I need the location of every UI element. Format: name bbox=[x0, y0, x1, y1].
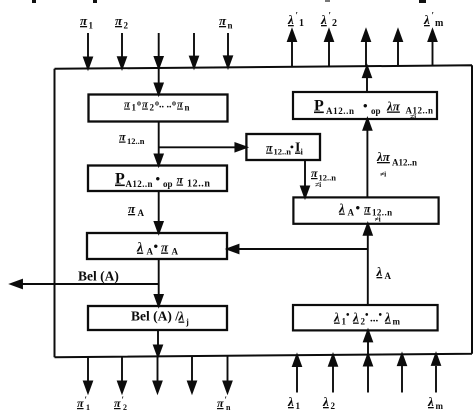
svg-text:1: 1 bbox=[86, 403, 90, 411]
svg-text:π: π bbox=[161, 240, 169, 255]
svg-text:•: • bbox=[346, 310, 350, 321]
wire lampi R2 to R1 bbox=[366, 128, 368, 198]
wire output pi'n bbox=[227, 356, 229, 384]
box R1 bbox=[293, 92, 437, 119]
svg-text:op: op bbox=[371, 106, 381, 116]
wire lambda1 in bbox=[296, 366, 298, 393]
svg-text:π: π bbox=[364, 202, 371, 216]
svg-text:o: o bbox=[172, 99, 176, 108]
box B3 bbox=[87, 233, 227, 259]
svg-text:λ: λ bbox=[352, 310, 359, 325]
svg-text:≠i: ≠i bbox=[375, 215, 381, 224]
svg-text:Bel (A): Bel (A) bbox=[78, 269, 119, 284]
wire output pi'4 bbox=[191, 356, 193, 384]
outer processor box bbox=[55, 65, 473, 357]
svg-text:2: 2 bbox=[332, 18, 337, 29]
svg-text:n: n bbox=[226, 403, 231, 411]
svg-text:π: π bbox=[177, 173, 184, 187]
svg-text:2: 2 bbox=[123, 403, 127, 411]
svg-text:λπ: λπ bbox=[376, 149, 391, 164]
box B2 bbox=[88, 166, 227, 192]
svg-text:A12..n: A12..n bbox=[392, 158, 417, 168]
box B1 bbox=[89, 95, 228, 122]
svg-text:o: o bbox=[137, 99, 141, 108]
svg-text:•: • bbox=[290, 142, 294, 154]
wire spine B1 to B2 bbox=[158, 122, 160, 158]
svg-text:2: 2 bbox=[150, 103, 155, 113]
svg-text:j: j bbox=[185, 317, 189, 327]
svg-text:1: 1 bbox=[89, 21, 94, 31]
svg-text:2: 2 bbox=[124, 21, 129, 31]
svg-text:λ: λ bbox=[427, 394, 434, 409]
svg-text:m: m bbox=[436, 401, 444, 411]
svg-text:π: π bbox=[115, 13, 123, 28]
svg-text:12..n: 12..n bbox=[274, 147, 292, 157]
svg-text:λ: λ bbox=[384, 310, 391, 325]
wire lambdaA R3 to R2 bbox=[367, 233, 369, 306]
svg-text:P: P bbox=[115, 171, 125, 188]
box B4 bbox=[88, 306, 227, 330]
svg-text:π: π bbox=[142, 99, 149, 111]
wire lambda2 in bbox=[332, 366, 334, 393]
svg-text:λ: λ bbox=[333, 310, 340, 325]
wire output lam' center bbox=[365, 39, 367, 66]
svg-text:1: 1 bbox=[299, 18, 304, 29]
wire output pi'2 bbox=[121, 357, 123, 384]
svg-text:π: π bbox=[266, 141, 273, 155]
svg-text:π: π bbox=[77, 396, 84, 410]
box R2 bbox=[293, 197, 438, 223]
wire branch lambdaA to B3 bbox=[236, 248, 368, 250]
svg-text:m: m bbox=[435, 18, 444, 29]
svg-text:n: n bbox=[228, 21, 233, 31]
wire input pi2 bbox=[121, 33, 123, 60]
wire spine B2 to B3 bbox=[158, 191, 160, 225]
svg-text:π: π bbox=[119, 130, 126, 144]
svg-text:λ: λ bbox=[376, 264, 383, 279]
svg-text:Bel (A) /: Bel (A) / bbox=[131, 309, 179, 324]
svg-text:•: • bbox=[379, 310, 383, 321]
wire output lam'4 bbox=[397, 39, 399, 66]
svg-text:λπ: λπ bbox=[386, 99, 401, 114]
wire lambdam in bbox=[435, 366, 437, 393]
wire Bel(A) out bbox=[19, 283, 159, 285]
svg-text:λ: λ bbox=[287, 394, 294, 409]
svg-text:λ: λ bbox=[287, 12, 294, 27]
svg-text:π: π bbox=[80, 13, 88, 28]
svg-text:π: π bbox=[114, 396, 121, 410]
svg-text:≠i: ≠i bbox=[380, 170, 386, 179]
cropped text remnants top bbox=[32, 0, 426, 3]
wire bottom edge to R3 bbox=[367, 339, 369, 355]
svg-text:≠i: ≠i bbox=[315, 180, 321, 189]
svg-text:A12..n: A12..n bbox=[326, 106, 355, 116]
wire branch to BI bbox=[159, 146, 238, 148]
svg-text:•: • bbox=[363, 98, 368, 113]
svg-text:1: 1 bbox=[296, 401, 301, 411]
svg-text:′: ′ bbox=[329, 11, 332, 21]
svg-text:≠i: ≠i bbox=[410, 112, 416, 121]
svg-text:12..n: 12..n bbox=[187, 179, 211, 190]
svg-text:λ: λ bbox=[423, 12, 430, 27]
svg-text:λ: λ bbox=[322, 394, 329, 409]
svg-text:•: • bbox=[154, 239, 159, 254]
svg-text:...: ... bbox=[370, 313, 379, 325]
svg-text:m: m bbox=[393, 317, 401, 327]
svg-text:λ: λ bbox=[178, 309, 185, 324]
svg-text:2: 2 bbox=[331, 401, 336, 411]
svg-text:•: • bbox=[356, 200, 361, 215]
svg-text:π: π bbox=[124, 99, 131, 111]
svg-text:A: A bbox=[348, 208, 355, 218]
svg-text:π: π bbox=[128, 201, 136, 216]
svg-text:A: A bbox=[385, 271, 392, 281]
wire BI to R2 bbox=[304, 160, 306, 189]
svg-text:A12..n: A12..n bbox=[126, 179, 153, 189]
wire lambda4 in bbox=[401, 366, 403, 393]
wire B4 to bottom edge bbox=[157, 330, 159, 348]
svg-text:op: op bbox=[163, 179, 173, 189]
wire output lam'2 bbox=[328, 39, 330, 67]
svg-text:A: A bbox=[172, 247, 179, 257]
wire input pi1 bbox=[87, 33, 89, 60]
box BI bbox=[246, 134, 320, 160]
wire input 4 bbox=[193, 33, 195, 59]
svg-text:π: π bbox=[311, 166, 318, 180]
svg-text:λ: λ bbox=[338, 201, 345, 216]
svg-text:π: π bbox=[177, 99, 184, 111]
svg-text:.. ..: .. .. bbox=[159, 100, 172, 111]
box R3 bbox=[293, 305, 438, 330]
svg-text:12..n: 12..n bbox=[127, 136, 145, 146]
svg-text:λ: λ bbox=[136, 241, 143, 256]
svg-text:π: π bbox=[219, 13, 227, 28]
svg-text:A: A bbox=[138, 208, 145, 218]
wire spine B3 to B4 bbox=[158, 259, 160, 298]
wire lambda center in bbox=[367, 366, 369, 393]
wire output pi'1 bbox=[87, 357, 89, 384]
svg-text:λ: λ bbox=[320, 12, 327, 27]
svg-text:π: π bbox=[217, 396, 224, 410]
svg-text:1: 1 bbox=[132, 103, 137, 113]
wire input pin bbox=[227, 33, 229, 59]
wire output pi' center bbox=[157, 356, 159, 384]
wire top edge to B1 bbox=[158, 68, 160, 86]
wire output lam'1 bbox=[291, 39, 293, 67]
svg-text:′: ′ bbox=[432, 11, 435, 21]
wire R1 to top edge bbox=[366, 75, 368, 92]
wire output lam'm bbox=[432, 39, 434, 66]
wire input center bbox=[158, 33, 160, 59]
svg-text:A: A bbox=[147, 247, 154, 257]
svg-text:•: • bbox=[365, 310, 369, 321]
svg-text:•: • bbox=[156, 171, 161, 186]
svg-text:P: P bbox=[314, 98, 324, 115]
svg-text:n: n bbox=[185, 103, 190, 113]
svg-text:′: ′ bbox=[296, 11, 299, 21]
